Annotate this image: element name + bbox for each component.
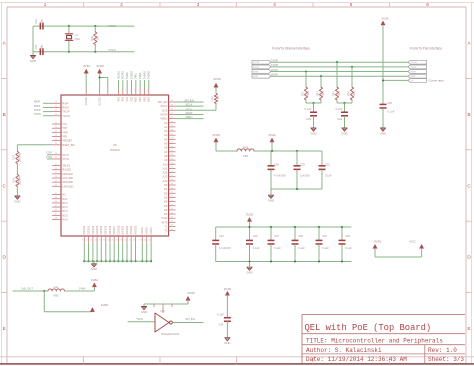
svg-text:57: 57 [112,240,114,242]
svg-text:1V8A: 1V8A [138,72,142,79]
svg-text:XTLP: XTLP [62,153,69,157]
svg-text:1V8_OUT: 1V8_OUT [21,286,33,290]
svg-text:(Center taps): (Center taps) [429,79,444,83]
svg-text:RSET_BG: RSET_BG [62,143,75,147]
svg-text:AGND2: AGND2 [130,225,133,234]
svg-text:45: 45 [55,205,57,207]
svg-text:*RESET: *RESET [62,139,72,143]
svg-text:From/To PoE Interface: From/To PoE Interface [410,47,442,51]
svg-text:60: 60 [171,229,173,231]
svg-text:54: 54 [99,240,101,242]
svg-text:FDXLED: FDXLED [62,172,73,176]
svg-text:VBG: VBG [134,74,138,79]
svg-text:26: 26 [55,126,57,128]
svg-text:3V3D: 3V3D [374,240,382,244]
svg-text:45: 45 [171,167,173,169]
svg-text:51: 51 [171,192,173,194]
svg-text:R21: R21 [302,91,304,96]
svg-text:A8: A8 [164,154,168,158]
svg-text:C27: C27 [274,234,279,238]
svg-text:39: 39 [171,142,173,144]
svg-text:DGND6: DGND6 [109,225,112,234]
svg-text:1V8A: 1V8A [91,278,98,282]
svg-text:Y1: Y1 [75,33,79,37]
svg-text:AGND3: AGND3 [134,225,137,234]
svg-text:*WR: *WR [62,130,68,134]
svg-text:43: 43 [171,158,173,160]
svg-text:Sheet: 3/3: Sheet: 3/3 [428,356,464,363]
svg-text:RXIP: RXIP [62,101,68,105]
svg-text:4.7uF/16V: 4.7uF/16V [219,246,231,250]
svg-text:3V3A: 3V3A [268,133,275,137]
svg-text:65: 65 [149,240,151,242]
svg-text:Author: S. Kalacinski: Author: S. Kalacinski [306,347,382,354]
svg-text:R16: R16 [13,178,16,183]
svg-text:56: 56 [108,240,110,242]
svg-text:NC6: NC6 [62,218,68,222]
svg-text:4: 4 [273,2,276,7]
svg-text:40: 40 [171,146,173,148]
svg-text:RXIP: RXIP [271,73,277,77]
svg-text:C30: C30 [306,117,311,121]
svg-text:D7: D7 [164,212,168,216]
svg-text:LINKLED: LINKLED [62,184,73,188]
svg-text:12K(1%): 12K(1%) [19,153,22,163]
svg-text:62: 62 [133,240,135,242]
svg-text:4.7uF/16V: 4.7uF/16V [274,174,286,178]
svg-text:RXIP: RXIP [34,100,40,104]
svg-text:36: 36 [171,129,173,131]
svg-text:21: 21 [55,106,57,108]
svg-text:DGND5: DGND5 [105,225,108,234]
svg-text:60: 60 [125,240,127,242]
svg-text:XTLP: XTLP [46,152,52,155]
svg-text:3V3D: 3V3D [187,291,195,295]
svg-text:SCS: SCS [162,108,168,112]
svg-text:29: 29 [55,139,57,141]
svg-text:A1: A1 [164,125,168,129]
svg-text:5: 5 [134,90,135,92]
svg-text:27: 27 [55,131,57,133]
svg-text:A10: A10 [163,162,168,166]
svg-text:INT5: INT5 [162,220,168,224]
svg-text:2: 2 [120,2,123,7]
svg-text:VCC: VCC [409,240,416,244]
svg-text:1V8AO: 1V8AO [147,71,151,79]
svg-text:C22: C22 [34,44,38,49]
svg-text:R22: R22 [333,91,335,96]
svg-text:NC1: NC1 [62,197,68,201]
svg-text:A11: A11 [163,166,168,170]
svg-text:51: 51 [86,240,88,242]
svg-text:D3: D3 [164,195,168,199]
svg-text:SPDLED: SPDLED [62,180,73,184]
svg-text:C33: C33 [345,234,350,238]
svg-text:38: 38 [171,138,173,140]
svg-text:35: 35 [171,125,173,127]
svg-text:46: 46 [171,171,173,173]
svg-text:GND: GND [141,310,147,314]
svg-text:54: 54 [171,204,173,206]
svg-text:SCLK: SCLK [160,104,167,108]
svg-text:C31: C31 [322,234,327,238]
svg-text:6: 6 [426,2,429,7]
svg-text:42: 42 [171,154,173,156]
svg-text:A5: A5 [164,142,168,146]
svg-text:0.1uF: 0.1uF [217,313,224,317]
svg-text:49.9: 49.9 [339,91,341,96]
svg-text:R20: R20 [90,35,94,40]
svg-text:C29: C29 [300,162,305,166]
svg-text:32: 32 [55,153,57,155]
svg-text:25: 25 [55,122,57,124]
svg-text:1uH: 1uH [54,285,59,289]
svg-text:59: 59 [171,225,173,227]
svg-text:50: 50 [82,240,84,242]
svg-text:VD1: VD1 [126,96,129,101]
svg-text:NC4: NC4 [62,209,68,213]
svg-text:50: 50 [171,187,173,189]
svg-text:Date: 11/19/2014 12:36:43 AM: Date: 11/19/2014 12:36:43 AM [306,356,407,363]
svg-text:53: 53 [95,240,97,242]
svg-text:3V3D: 3V3D [224,287,232,291]
svg-text:52: 52 [91,240,93,242]
svg-text:20: 20 [55,102,57,104]
svg-text:*CS: *CS [62,122,67,126]
svg-text:2: 2 [171,302,172,304]
svg-text:FB3: FB3 [54,294,59,298]
svg-text:3V3A2: 3V3A2 [116,71,120,79]
svg-text:4.7K: 4.7K [217,96,220,101]
svg-text:DGND2: DGND2 [92,225,95,234]
svg-text:52: 52 [171,196,173,198]
svg-text:A3: A3 [164,133,168,137]
svg-text:NC2: NC2 [62,201,68,205]
svg-text:1uH: 1uH [243,145,248,149]
svg-text:MISO: MISO [161,117,168,121]
svg-text:49.9: 49.9 [308,91,310,96]
svg-text:XTLN: XTLN [46,156,52,159]
svg-text:46: 46 [55,209,57,211]
svg-text:63: 63 [140,240,142,242]
svg-text:VBG: VBG [135,97,138,102]
svg-text:1V8D: 1V8D [101,303,109,307]
svg-text:33: 33 [171,117,173,119]
svg-text:D6: D6 [164,208,168,212]
svg-text:D5: D5 [164,204,168,208]
svg-text:1uF/16V: 1uF/16V [300,174,310,178]
svg-text:W5100: W5100 [110,148,120,152]
svg-text:61: 61 [129,240,131,242]
svg-text:VAO: VAO [148,97,151,102]
svg-text:30: 30 [55,143,57,145]
svg-text:3V3A: 3V3A [83,64,90,68]
svg-text:C32: C32 [325,162,330,166]
svg-text:GND: GND [14,199,20,203]
svg-text:4: 4 [129,90,130,92]
svg-text:XTLN: XTLN [62,157,69,161]
svg-text:30: 30 [171,104,173,106]
svg-text:48: 48 [171,179,173,181]
svg-text:44: 44 [171,162,173,164]
svg-text:MISO: MISO [186,115,193,119]
svg-text:GNDC: GNDC [150,227,153,235]
svg-text:SPI_EN: SPI_EN [185,317,195,321]
svg-text:SPI_EN: SPI_EN [184,98,194,102]
svg-text:B: B [467,112,470,117]
svg-text:GND: GND [30,59,36,63]
svg-text:E: E [3,326,6,331]
svg-text:AGND0: AGND0 [122,225,125,234]
svg-text:XTLP: XTLP [108,24,116,28]
svg-text:A9: A9 [164,158,168,162]
svg-text:U5: U5 [113,143,117,147]
svg-text:TALE2: TALE2 [62,164,71,168]
svg-text:0.1uF: 0.1uF [325,174,332,178]
svg-text:55: 55 [171,208,173,210]
svg-text:49.9: 49.9 [354,91,356,96]
svg-text:D4: D4 [164,200,168,204]
svg-text:A7: A7 [164,150,168,154]
svg-text:18p: 18p [40,19,44,24]
svg-text:48: 48 [55,218,57,220]
svg-text:*SCS: *SCS [136,317,143,321]
svg-text:53: 53 [171,200,173,202]
svg-text:C21: C21 [34,19,38,24]
svg-text:3V3A: 3V3A [381,16,388,20]
svg-text:DGND3: DGND3 [96,225,99,234]
svg-text:C34: C34 [337,117,342,121]
svg-text:V8B: V8B [143,97,146,102]
svg-text:35: 35 [55,164,57,166]
svg-text:58: 58 [116,240,118,242]
svg-text:D2: D2 [164,191,168,195]
svg-text:3V3D: 3V3D [246,213,254,217]
svg-text:R24: R24 [348,91,350,96]
svg-text:GND: GND [268,199,274,203]
svg-text:36: 36 [55,168,57,170]
svg-text:SPI_EN: SPI_EN [158,100,168,104]
svg-text:39: 39 [55,180,57,182]
svg-text:SCLK: SCLK [185,102,192,106]
svg-text:GNDA: GNDA [141,227,144,235]
svg-text:GND: GND [246,271,252,275]
svg-text:AGND1: AGND1 [126,225,129,234]
svg-text:59: 59 [120,240,122,242]
svg-text:3V3D: 3V3D [212,133,220,137]
svg-text:1V8D2: 1V8D2 [129,71,133,79]
svg-text:FB4: FB4 [243,154,248,158]
svg-text:0.1uF: 0.1uF [274,246,281,250]
svg-text:1V8A2: 1V8A2 [142,71,146,79]
svg-text:C25: C25 [253,234,258,238]
svg-text:40: 40 [55,185,57,187]
svg-text:32: 32 [171,113,173,115]
svg-text:D0: D0 [164,183,168,187]
svg-text:38: 38 [55,176,57,178]
svg-text:RXIN: RXIN [271,68,277,72]
svg-text:1V8D: 1V8D [125,72,129,79]
svg-text:E: E [467,326,470,331]
svg-text:1V8A: 1V8A [79,286,86,290]
svg-text:From/To Ethernet Interface: From/To Ethernet Interface [272,47,310,51]
svg-text:C29: C29 [298,234,303,238]
svg-text:RXIN: RXIN [34,104,40,108]
svg-text:0.1uF: 0.1uF [305,107,312,111]
svg-text:DGND4: DGND4 [100,225,103,234]
svg-text:RXIN: RXIN [253,72,259,74]
svg-text:NC5: NC5 [62,213,68,217]
svg-text:47: 47 [55,214,57,216]
svg-text:57: 57 [171,216,173,218]
svg-text:3V3A3: 3V3A3 [121,71,125,79]
svg-text:0.1uF: 0.1uF [388,110,395,114]
svg-text:42: 42 [55,193,57,195]
svg-text:SN74AHC1G04: SN74AHC1G04 [161,332,180,336]
svg-text:TXOP: TXOP [62,110,70,114]
svg-text:300(1%): 300(1%) [19,176,22,185]
svg-text:GND: GND [341,131,347,135]
svg-text:0.1uF: 0.1uF [322,246,329,250]
svg-text:37: 37 [171,133,173,135]
svg-text:0.1uF: 0.1uF [298,246,305,250]
svg-text:A6: A6 [164,146,168,150]
svg-text:58: 58 [171,221,173,223]
svg-text:23: 23 [55,114,57,116]
svg-text:0.1uF: 0.1uF [345,246,352,250]
svg-text:1M: 1M [95,36,99,40]
svg-text:1: 1 [44,2,47,7]
svg-text:T2: T2 [164,229,168,233]
svg-text:22: 22 [55,110,57,112]
svg-text:VA2: VA2 [122,96,125,101]
svg-text:GND: GND [310,131,316,135]
svg-text:TXON: TXON [62,114,70,118]
svg-text:T1: T1 [164,225,168,229]
svg-text:1: 1 [117,90,118,92]
svg-text:DGND7: DGND7 [113,225,116,234]
svg-text:28: 28 [55,135,57,137]
svg-text:3V3D: 3V3D [96,64,104,68]
svg-text:TXOP: TXOP [271,63,279,67]
svg-text:GND: GND [380,131,386,135]
svg-text:VA1: VA1 [117,96,120,101]
svg-text:VCC3D: VCC3D [99,97,102,106]
svg-text:XTLN: XTLN [108,48,116,52]
svg-text:41: 41 [171,150,173,152]
svg-text:DGND8: DGND8 [117,225,120,234]
svg-text:34: 34 [171,121,173,123]
svg-text:GND: GND [224,341,230,345]
svg-text:VCC3A: VCC3A [85,97,88,106]
svg-text:SCS: SCS [186,107,192,111]
svg-text:Rev: 1.0: Rev: 1.0 [428,347,457,354]
svg-text:49.9: 49.9 [323,91,325,96]
svg-text:33: 33 [55,157,57,159]
svg-text:*CS2: *CS2 [161,216,168,220]
svg-text:7: 7 [142,90,143,92]
svg-text:TXON: TXON [271,59,279,63]
svg-text:OSC: OSC [75,37,81,41]
svg-text:DGND1: DGND1 [87,225,90,234]
svg-text:RXIN: RXIN [411,72,417,74]
svg-text:B: B [3,112,6,117]
svg-text:6: 6 [138,90,139,92]
svg-text:3: 3 [125,90,126,92]
svg-text:0.1uF: 0.1uF [336,107,343,111]
svg-text:TXOP: TXOP [253,67,259,69]
svg-text:44: 44 [55,201,57,203]
svg-text:2: 2 [121,90,122,92]
svg-text:A0: A0 [164,121,168,125]
svg-text:TXOP: TXOP [33,108,41,112]
svg-text:29: 29 [171,100,173,102]
svg-text:43: 43 [55,197,57,199]
svg-text:A13: A13 [163,175,168,179]
svg-text:37: 37 [55,172,57,174]
svg-text:TXOP: TXOP [411,67,417,69]
svg-text:TITLE: Microcontroller and Pe: TITLE: Microcontroller and Peripherals [306,337,443,344]
svg-text:47: 47 [171,175,173,177]
svg-text:RXIP: RXIP [411,76,417,78]
svg-text:NC3: NC3 [62,205,68,209]
svg-text:8: 8 [147,90,148,92]
svg-text:TXON: TXON [253,62,259,64]
svg-text:D1: D1 [164,187,168,191]
svg-text:GNDB: GNDB [146,227,149,235]
svg-text:A4: A4 [164,137,168,141]
svg-text:56: 56 [171,212,173,214]
svg-text:*INT: *INT [62,126,68,130]
svg-text:55: 55 [103,240,105,242]
svg-text:R23: R23 [317,91,319,96]
svg-text:NC: NC [62,193,66,197]
svg-text:MOSI: MOSI [161,112,168,116]
svg-text:5: 5 [350,2,353,7]
svg-text:V8A: V8A [139,97,142,102]
svg-text:R19: R19 [13,155,16,160]
svg-text:31: 31 [171,109,173,111]
svg-text:VD2: VD2 [130,96,133,101]
svg-text:QEL with PoE (Top Board): QEL with PoE (Top Board) [305,323,432,333]
svg-text:C35: C35 [387,101,392,105]
svg-text:A12: A12 [163,171,168,175]
svg-text:*RD: *RD [62,135,67,139]
svg-text:GND: GND [91,267,97,271]
svg-text:TXON: TXON [33,112,41,116]
svg-text:C23: C23 [219,234,224,238]
svg-text:COLLED: COLLED [62,176,73,180]
svg-text:0.1uF: 0.1uF [253,246,260,250]
svg-text:18p: 18p [40,44,44,49]
svg-text:RXIP: RXIP [253,76,259,78]
svg-text:A2: A2 [164,129,168,133]
svg-text:3V3D: 3V3D [213,77,221,81]
svg-text:RXLED: RXLED [62,168,71,172]
svg-text:DGND0: DGND0 [83,225,86,234]
svg-text:49: 49 [171,183,173,185]
svg-text:TXON: TXON [411,62,417,64]
svg-text:RXIN: RXIN [62,105,68,109]
svg-text:64: 64 [144,240,146,242]
svg-text:5: 5 [153,302,154,304]
svg-text:3: 3 [197,2,200,7]
svg-text:R17: R17 [211,96,214,101]
svg-text:A14: A14 [163,179,168,183]
svg-text:C28: C28 [274,162,279,166]
svg-text:C24: C24 [219,322,224,326]
svg-text:3: 3 [162,302,163,304]
